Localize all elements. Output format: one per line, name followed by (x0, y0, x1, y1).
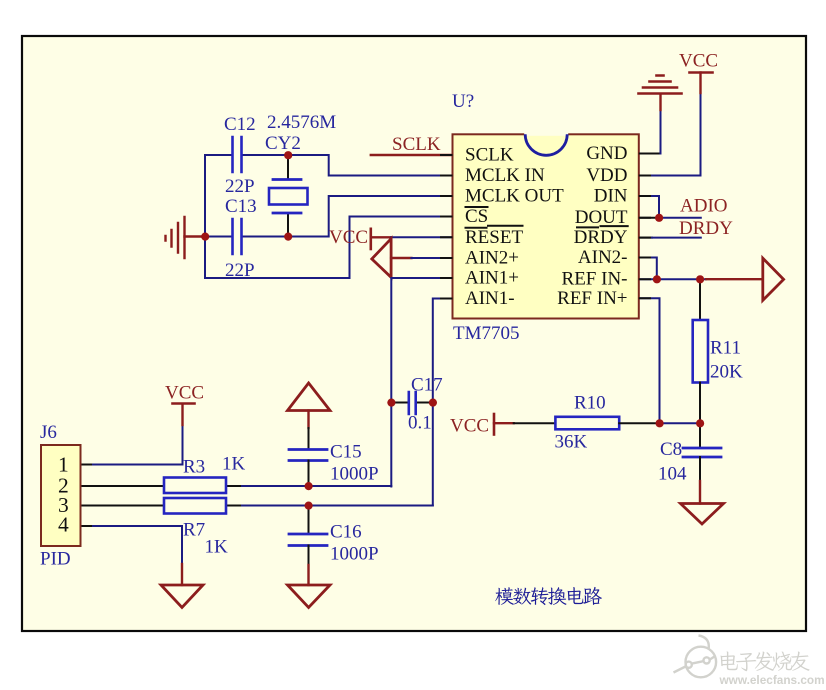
svg-text:C16: C16 (330, 522, 362, 543)
svg-text:ADIO: ADIO (680, 196, 728, 217)
svg-text:VCC: VCC (165, 383, 204, 404)
svg-text:4: 4 (58, 513, 69, 537)
svg-text:DRDY: DRDY (679, 218, 733, 239)
svg-text:1K: 1K (205, 537, 229, 558)
svg-text:R11: R11 (710, 338, 741, 359)
svg-text:C13: C13 (225, 196, 257, 217)
svg-text:C8: C8 (660, 439, 682, 460)
svg-text:MCLK IN: MCLK IN (465, 165, 545, 186)
svg-text:CS: CS (465, 206, 488, 227)
svg-text:1000P: 1000P (330, 464, 379, 485)
svg-text:DRDY: DRDY (574, 227, 628, 248)
svg-text:22P: 22P (225, 176, 255, 197)
svg-text:GND: GND (586, 143, 627, 164)
svg-text:C15: C15 (330, 442, 362, 463)
svg-text:AIN2-: AIN2- (578, 247, 628, 268)
svg-text:PID: PID (40, 549, 71, 570)
svg-text:1000P: 1000P (330, 544, 379, 565)
svg-text:R7: R7 (183, 520, 205, 541)
svg-text:J6: J6 (40, 422, 57, 443)
svg-text:DIN: DIN (594, 186, 628, 207)
svg-text:AIN1-: AIN1- (465, 288, 515, 309)
svg-text:REF IN-: REF IN- (562, 269, 628, 290)
svg-text:VCC: VCC (679, 51, 718, 72)
svg-text:R10: R10 (574, 393, 606, 414)
svg-text:C12: C12 (224, 114, 256, 135)
svg-text:RESET: RESET (465, 227, 523, 248)
svg-text:SCLK: SCLK (465, 145, 514, 166)
svg-text:www.elecfans.com: www.elecfans.com (719, 673, 825, 687)
svg-text:U?: U? (452, 91, 474, 112)
svg-text:VCC: VCC (450, 416, 489, 437)
svg-text:22P: 22P (225, 260, 255, 281)
svg-text:2.4576M: 2.4576M (267, 112, 336, 133)
svg-text:0.1: 0.1 (408, 413, 432, 434)
svg-text:TM7705: TM7705 (453, 323, 520, 344)
svg-text:VCC: VCC (329, 227, 368, 248)
svg-text:VDD: VDD (586, 165, 627, 186)
svg-text:MCLK OUT: MCLK OUT (465, 186, 564, 207)
svg-text:AIN1+: AIN1+ (465, 268, 519, 289)
svg-text:20K: 20K (710, 362, 743, 383)
svg-text:1K: 1K (222, 454, 246, 475)
svg-text:CY2: CY2 (265, 133, 301, 154)
svg-text:C17: C17 (411, 375, 443, 396)
svg-text:36K: 36K (555, 432, 588, 453)
svg-text:AIN2+: AIN2+ (465, 248, 519, 269)
svg-text:SCLK: SCLK (392, 134, 441, 155)
svg-text:104: 104 (658, 464, 687, 485)
svg-text:REF IN+: REF IN+ (557, 288, 627, 309)
svg-text:DOUT: DOUT (575, 207, 628, 228)
svg-text:R3: R3 (183, 457, 205, 478)
